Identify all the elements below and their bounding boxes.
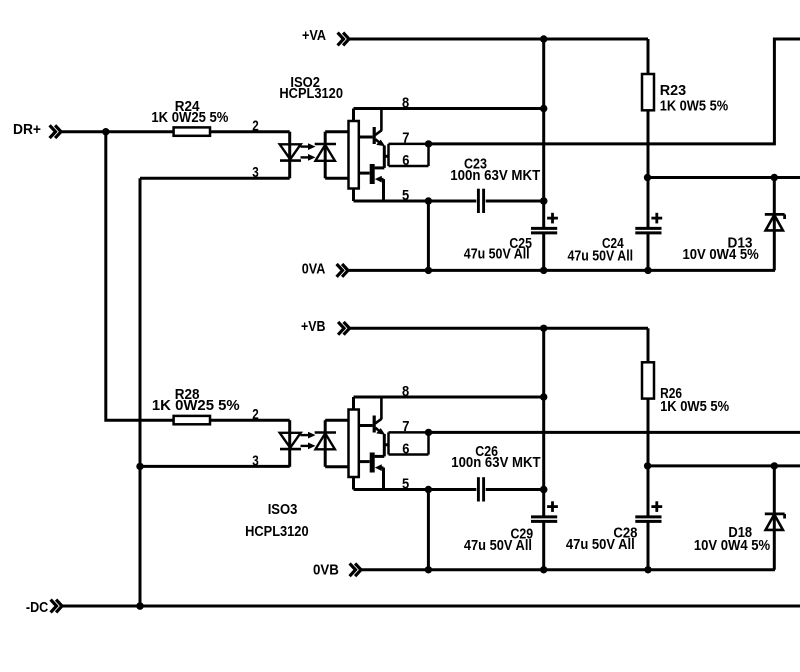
svg-text:0VA: 0VA	[302, 262, 326, 278]
svg-text:5: 5	[402, 476, 409, 492]
svg-text:ISO3: ISO3	[268, 502, 298, 518]
svg-text:HCPL3120: HCPL3120	[279, 86, 343, 102]
svg-text:8: 8	[402, 384, 409, 400]
svg-text:+VA: +VA	[302, 28, 326, 44]
svg-text:3: 3	[252, 165, 259, 181]
svg-text:10V 0W4 5%: 10V 0W4 5%	[694, 538, 770, 554]
svg-text:6: 6	[402, 441, 409, 457]
svg-text:3: 3	[252, 454, 259, 470]
svg-text:8: 8	[402, 95, 409, 111]
svg-text:2: 2	[252, 119, 259, 135]
svg-text:47u 50V All: 47u 50V All	[464, 538, 532, 554]
svg-text:1K 0W5 5%: 1K 0W5 5%	[660, 399, 729, 415]
svg-text:7: 7	[402, 419, 409, 435]
svg-text:DR+: DR+	[13, 122, 41, 138]
svg-text:-DC: -DC	[26, 600, 49, 616]
svg-text:R23: R23	[660, 83, 686, 99]
svg-text:0VB: 0VB	[313, 563, 339, 579]
svg-text:2: 2	[252, 407, 259, 423]
svg-text:47u 50V All: 47u 50V All	[566, 537, 635, 553]
svg-text:1K 0W25 5%: 1K 0W25 5%	[152, 398, 240, 414]
svg-text:6: 6	[402, 153, 409, 169]
svg-text:5: 5	[402, 188, 409, 204]
svg-text:1K 0W25 5%: 1K 0W25 5%	[151, 110, 228, 126]
svg-text:47u 50V All: 47u 50V All	[464, 247, 530, 263]
svg-text:1K 0W5 5%: 1K 0W5 5%	[660, 98, 729, 114]
svg-text:47u 50V All: 47u 50V All	[568, 249, 634, 265]
svg-text:10V 0W4 5%: 10V 0W4 5%	[683, 247, 759, 263]
svg-text:HCPL3120: HCPL3120	[245, 524, 309, 540]
svg-text:100n 63V MKT: 100n 63V MKT	[450, 168, 540, 184]
svg-text:7: 7	[402, 131, 409, 147]
svg-text:+VB: +VB	[301, 319, 326, 335]
svg-text:100n 63V MKT: 100n 63V MKT	[451, 455, 540, 471]
